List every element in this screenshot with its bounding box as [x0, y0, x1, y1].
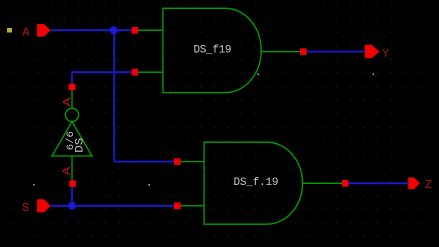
pin square U1 input2: [132, 69, 139, 76]
pin square U1 input1: [132, 27, 139, 34]
wire U2 output to pin Z: [349, 182, 409, 184]
output pin Y: [365, 45, 380, 59]
and-gate U1 (body and pin stubs): [135, 8, 303, 92]
wire U1 output to pin Y: [307, 51, 365, 53]
inverter U3 (bubble, triangle, stubs): [52, 90, 92, 180]
svg-text:Y: Y: [382, 47, 389, 61]
stray white dot 3: [258, 74, 259, 75]
wire junction to U1 input1: [114, 29, 132, 31]
pin square U2 output: [342, 180, 349, 187]
input pin A: [37, 24, 51, 37]
and-gate U2 (body and pin stubs): [177, 142, 345, 224]
junction dot net S: [68, 202, 76, 210]
svg-text:A: A: [62, 166, 74, 175]
output pin Z: [408, 178, 420, 190]
wire S pin to junction: [51, 205, 73, 207]
svg-text:A: A: [22, 25, 30, 39]
stray white dot 4: [373, 74, 374, 75]
svg-text:DS: DS: [75, 137, 87, 152]
wire junction to U2 input2: [72, 205, 174, 207]
svg-text:A: A: [63, 97, 75, 107]
svg-text:DS_f19: DS_f19: [194, 45, 232, 57]
input pin S: [37, 199, 51, 212]
stray white dot 1: [33, 184, 34, 185]
svg-text:Z: Z: [425, 178, 432, 192]
wire vertical corner to U2 input1: [114, 161, 174, 163]
pin square U2 input2: [174, 203, 181, 210]
wire junction up to inverter input: [71, 187, 73, 206]
wire inverter output to U1 input2: [72, 72, 132, 84]
wire A pin to junction: [51, 29, 114, 31]
junction dot net A: [110, 26, 118, 34]
wire junction down to lower row: [113, 30, 115, 161]
pin square U2 input1: [174, 158, 181, 165]
stray white dot 2: [149, 184, 150, 185]
svg-text:S: S: [22, 201, 29, 215]
origin marker (yellow square): [7, 28, 12, 33]
svg-text:DS_f.19: DS_f.19: [234, 177, 279, 189]
pin square U1 output: [300, 48, 307, 55]
pin square U3 output: [69, 84, 76, 91]
pin square U3 input: [69, 180, 76, 187]
